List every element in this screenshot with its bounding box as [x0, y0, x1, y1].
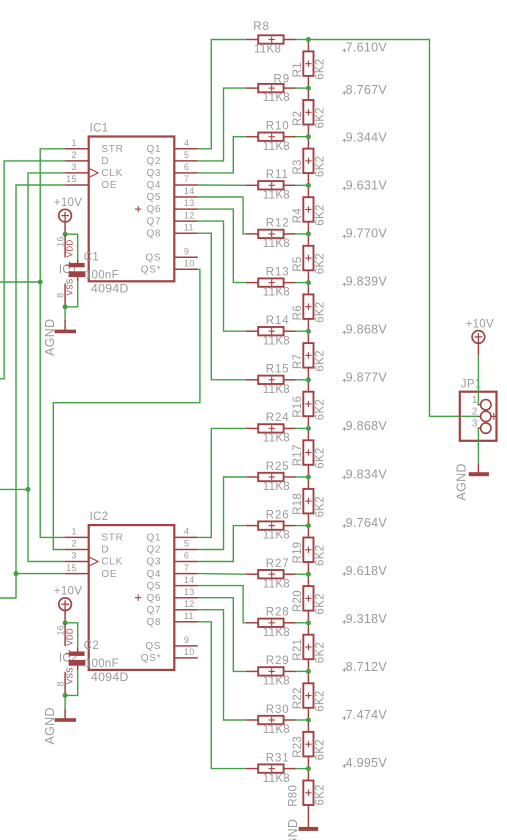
wire +10V pin IC2 — [64, 611, 66, 621]
wire row 8 resistor to node — [296, 379, 309, 381]
resistor R30 11K8 — [246, 704, 296, 736]
resistor R4 6K2 — [292, 185, 327, 234]
wire IC1 Q4 to row 4 — [198, 184, 246, 186]
svg-text:+10V: +10V — [466, 319, 494, 331]
svg-text:11K8: 11K8 — [263, 141, 290, 153]
svg-text:6K2: 6K2 — [315, 447, 327, 468]
svg-text:R4: R4 — [292, 208, 304, 224]
svg-text:QS: QS — [145, 252, 161, 263]
node voltage label 9.877V — [343, 370, 388, 384]
svg-text:6K2: 6K2 — [315, 496, 327, 517]
wire row 9 resistor to node — [296, 427, 309, 429]
svg-text:9.834V: 9.834V — [346, 467, 388, 481]
svg-text:100nF: 100nF — [85, 658, 119, 670]
junction CLK branch — [26, 487, 31, 492]
svg-text:11K8: 11K8 — [263, 287, 290, 299]
svg-text:9.344V: 9.344V — [346, 130, 388, 144]
wire IC2 Q3 to row 11 — [198, 526, 246, 562]
svg-text:6K2: 6K2 — [315, 399, 327, 420]
svg-text:14: 14 — [184, 186, 195, 196]
pin 8 VSS IC1 — [56, 279, 75, 307]
junction OE branch — [14, 571, 19, 576]
wire row 10 resistor to node — [296, 476, 309, 478]
wire row 2 resistor to node — [296, 87, 309, 89]
power +10V supply above IC2 — [54, 585, 82, 611]
junction node row 3 — [306, 134, 311, 139]
wire IC1 Q3 to row 3 — [198, 137, 246, 173]
resistor R2 6K2 — [292, 88, 327, 137]
svg-text:R31: R31 — [266, 752, 290, 764]
connector JP1 — [460, 378, 497, 440]
wire IC2 Q7 to row 15 — [198, 610, 246, 720]
wire VDD to C1 — [65, 234, 78, 259]
svg-text:6K2: 6K2 — [315, 204, 327, 225]
wire C2 to VSS — [65, 670, 78, 695]
node voltage label 9.834V — [343, 467, 388, 481]
svg-text:R25: R25 — [266, 461, 290, 473]
resistor R6 6K2 — [292, 283, 327, 332]
svg-text:2: 2 — [472, 407, 478, 418]
svg-text:R27: R27 — [266, 558, 290, 570]
svg-text:R7: R7 — [292, 354, 304, 369]
wire IC1 Q7 to row 7 — [198, 221, 246, 331]
svg-text:11K8: 11K8 — [254, 44, 281, 56]
resistor R10 11K8 — [246, 121, 296, 153]
svg-text:11K8: 11K8 — [263, 335, 290, 347]
svg-text:R10: R10 — [266, 121, 290, 133]
wire +10V pin JP1 — [477, 343, 479, 355]
resistor R5 6K2 — [292, 234, 327, 283]
svg-text:R17: R17 — [292, 444, 304, 466]
svg-text:15: 15 — [66, 174, 77, 184]
resistor R12 11K8 — [246, 218, 296, 250]
node voltage label 4.995V — [343, 756, 388, 770]
svg-text:R11: R11 — [266, 169, 289, 181]
svg-text:4094D: 4094D — [91, 670, 129, 684]
resistor R15 11K8 — [246, 364, 296, 396]
svg-text:16: 16 — [56, 625, 66, 636]
svg-text:4: 4 — [184, 527, 189, 537]
svg-text:3: 3 — [472, 418, 478, 429]
label IC2 power gate — [59, 652, 78, 664]
svg-text:+10V: +10V — [54, 585, 82, 597]
svg-text:9: 9 — [184, 635, 189, 645]
junction node row 7 — [306, 329, 311, 334]
wire net OE — [0, 185, 65, 598]
svg-text:STR: STR — [101, 533, 123, 544]
wire IC1 Q6 to row 6 — [198, 209, 246, 283]
svg-text:12: 12 — [184, 599, 195, 609]
svg-text:Q6: Q6 — [146, 204, 161, 215]
junction node row 15 — [306, 718, 311, 723]
svg-text:6K2: 6K2 — [315, 593, 327, 614]
junction node row 8 — [306, 377, 311, 382]
node voltage label 9.344V — [343, 130, 388, 144]
svg-text:R21: R21 — [292, 639, 304, 661]
svg-text:R5: R5 — [292, 256, 304, 271]
svg-text:9.618V: 9.618V — [346, 564, 388, 578]
pin 8 VSS IC2 — [56, 667, 75, 695]
svg-text:13: 13 — [184, 587, 195, 597]
svg-text:VDD: VDD — [66, 239, 75, 257]
svg-text:R22: R22 — [292, 687, 304, 709]
svg-text:4.995V: 4.995V — [346, 756, 388, 770]
wire row 15 resistor to node — [296, 719, 309, 721]
svg-text:Q7: Q7 — [146, 216, 161, 227]
svg-text:Q4: Q4 — [146, 180, 161, 191]
resistor R19 6K2 — [292, 526, 327, 575]
svg-text:R18: R18 — [292, 493, 304, 515]
svg-text:16: 16 — [56, 236, 66, 247]
svg-text:C1: C1 — [84, 251, 99, 263]
resistor R28 11K8 — [246, 607, 296, 639]
svg-text:11K8: 11K8 — [263, 676, 290, 688]
node voltage label 9.764V — [343, 516, 388, 530]
svg-text:R2: R2 — [292, 111, 304, 126]
resistor R18 6K2 — [292, 477, 327, 526]
junction node row 13 — [306, 620, 311, 625]
svg-text:R13: R13 — [266, 266, 290, 278]
svg-text:11K8: 11K8 — [263, 773, 290, 785]
svg-text:R30: R30 — [266, 704, 290, 716]
svg-text:Q1: Q1 — [146, 533, 161, 544]
svg-text:R8: R8 — [253, 21, 270, 33]
wire VDD to C2 — [65, 623, 78, 648]
capacitor C1 100nF — [66, 251, 119, 281]
junction VSS node IC1 — [63, 304, 68, 309]
junction node row 2 — [306, 86, 311, 91]
resistor R9 11K8 — [246, 74, 296, 105]
svg-text:AGND: AGND — [43, 707, 57, 744]
svg-text:8.767V: 8.767V — [346, 83, 388, 97]
wire IC1 QS* to IC2 D — [53, 269, 200, 549]
svg-text:R80: R80 — [288, 785, 300, 807]
svg-text:R26: R26 — [266, 509, 290, 521]
capacitor C2 100nF — [66, 640, 119, 670]
svg-text:6K2: 6K2 — [315, 642, 327, 663]
resistor R21 6K2 — [292, 623, 327, 672]
wire IC2 Q2 to row 10 — [198, 477, 246, 550]
wire net D — [0, 161, 65, 379]
node voltage label 9.618V — [343, 564, 388, 578]
svg-text:6K2: 6K2 — [315, 59, 327, 80]
svg-text:8.712V: 8.712V — [346, 660, 388, 674]
wire row 4 resistor to node — [296, 184, 309, 186]
svg-text:6K2: 6K2 — [315, 107, 327, 128]
node voltage label 7.474V — [343, 708, 388, 722]
svg-text:STR: STR — [101, 144, 123, 155]
svg-text:8: 8 — [56, 681, 66, 686]
svg-text:9: 9 — [184, 246, 189, 256]
pin 16 VDD IC1 — [56, 234, 75, 257]
resistor R24 11K8 — [246, 412, 296, 444]
svg-text:1: 1 — [71, 527, 76, 537]
svg-text:6K2: 6K2 — [315, 156, 327, 177]
node voltage label 8.767V — [343, 83, 388, 97]
svg-text:R29: R29 — [266, 655, 290, 667]
svg-text:+10V: +10V — [54, 197, 82, 209]
svg-text:IC1: IC1 — [90, 122, 109, 134]
svg-text:R9: R9 — [274, 74, 291, 86]
wire IC1 Q1 to row 1 — [198, 40, 246, 149]
wire ladder top to JP1 pin 2 — [308, 40, 478, 417]
resistor R11 11K8 — [246, 169, 296, 201]
resistor R16 6K2 — [292, 380, 327, 429]
svg-text:6K2: 6K2 — [315, 739, 327, 760]
resistor R23 6K2 — [292, 720, 327, 769]
svg-text:7: 7 — [184, 174, 189, 184]
svg-text:6K2: 6K2 — [315, 350, 327, 371]
junction node row 5 — [306, 231, 311, 236]
svg-text:4094D: 4094D — [91, 282, 129, 296]
resistor R7 6K2 — [292, 331, 327, 380]
svg-text:R1: R1 — [292, 62, 304, 77]
svg-text:10: 10 — [184, 647, 195, 657]
svg-text:6: 6 — [184, 162, 189, 172]
resistor R13 11K8 — [246, 266, 296, 298]
node voltage label 9.839V — [343, 274, 388, 288]
svg-text:11K8: 11K8 — [263, 92, 290, 104]
svg-text:R24: R24 — [266, 412, 290, 424]
resistor R25 11K8 — [246, 461, 296, 493]
svg-text:2: 2 — [71, 539, 76, 549]
wire C1 to VSS — [65, 282, 78, 307]
resistor R29 11K8 — [246, 655, 296, 687]
svg-text:11K8: 11K8 — [263, 578, 290, 590]
resistor R14 11K8 — [246, 315, 296, 347]
junction node row 16 — [306, 766, 311, 771]
svg-text:Q3: Q3 — [146, 557, 161, 568]
svg-text:7.474V: 7.474V — [346, 708, 388, 722]
wire row 11 resistor to node — [296, 525, 309, 527]
svg-text:AGND: AGND — [286, 819, 300, 840]
svg-text:Q8: Q8 — [146, 617, 161, 628]
power +10V supply above JP1 — [466, 319, 494, 344]
svg-text:100nF: 100nF — [85, 270, 119, 282]
svg-text:VDD: VDD — [66, 628, 75, 646]
svg-text:Q1: Q1 — [146, 144, 161, 155]
svg-text:11K8: 11K8 — [263, 384, 290, 396]
wire row 16 resistor to node — [296, 768, 309, 770]
svg-text:10: 10 — [184, 259, 195, 269]
svg-text:9.868V: 9.868V — [346, 322, 388, 336]
junction node row 11 — [306, 523, 311, 528]
wire IC2 Q5 to row 13 — [198, 586, 246, 623]
svg-text:D: D — [101, 156, 109, 167]
svg-text:7: 7 — [184, 563, 189, 573]
svg-text:Q2: Q2 — [146, 156, 161, 167]
svg-text:1: 1 — [71, 138, 76, 148]
junction node row 1 — [306, 37, 311, 42]
junction node row 9 — [306, 426, 311, 431]
wire row 3 resistor to node — [296, 136, 309, 138]
wire net CLK — [28, 173, 65, 562]
junction VDD node IC2 — [63, 620, 68, 625]
svg-text:3: 3 — [71, 162, 76, 172]
wire row 14 resistor to node — [296, 670, 309, 672]
node voltage label 9.318V — [343, 612, 388, 626]
svg-text:R3: R3 — [292, 159, 304, 174]
wire IC1 Q2 to row 2 — [198, 88, 246, 161]
junction VSS node IC2 — [63, 693, 68, 698]
wire IC1 Q8 to row 8 — [198, 233, 246, 380]
svg-text:R6: R6 — [292, 305, 304, 320]
svg-text:Q8: Q8 — [146, 228, 161, 239]
node voltage label 9.868V — [343, 419, 388, 433]
svg-text:R23: R23 — [292, 736, 304, 758]
svg-text:9.318V: 9.318V — [346, 612, 388, 626]
svg-text:6K2: 6K2 — [315, 784, 327, 805]
svg-text:11K8: 11K8 — [263, 238, 290, 250]
svg-text:11K8: 11K8 — [263, 481, 290, 493]
svg-text:1: 1 — [472, 395, 478, 406]
wire JP1 pin 3 to ground — [477, 428, 479, 464]
resistor R80 6K2 — [288, 769, 327, 828]
svg-text:6: 6 — [184, 551, 189, 561]
svg-text:13: 13 — [184, 198, 195, 208]
node voltage label 7.610V — [343, 40, 388, 54]
svg-text:9.764V: 9.764V — [346, 516, 388, 530]
ground AGND IC2 — [43, 707, 76, 744]
svg-text:11: 11 — [184, 611, 194, 621]
svg-text:6K2: 6K2 — [315, 545, 327, 566]
wire row 1 resistor to node — [296, 39, 309, 41]
svg-text:AGND: AGND — [43, 319, 57, 356]
svg-text:Q2: Q2 — [146, 545, 161, 556]
svg-text:R15: R15 — [266, 364, 290, 376]
svg-text:Q5: Q5 — [146, 581, 161, 592]
svg-text:AGND: AGND — [455, 463, 469, 500]
svg-text:5: 5 — [184, 150, 189, 160]
node voltage label 9.770V — [343, 226, 388, 240]
wire IC2 Q8 to row 16 — [198, 622, 246, 769]
wire IC2 Q4 to row 12 — [198, 573, 246, 576]
svg-text:QS: QS — [145, 641, 161, 652]
svg-text:Q4: Q4 — [146, 569, 161, 580]
label IC1 power gate — [59, 264, 78, 276]
svg-text:4: 4 — [184, 138, 189, 148]
svg-text:VSS: VSS — [66, 279, 75, 296]
ground AGND bottom of ladder — [286, 819, 318, 840]
svg-text:6K2: 6K2 — [315, 253, 327, 274]
svg-text:5: 5 — [184, 539, 189, 549]
resistor R1 6K2 — [292, 40, 327, 89]
resistor R3 6K2 — [292, 137, 327, 186]
wire IC2 Q1 to row 9 — [198, 428, 246, 537]
svg-text:QS*: QS* — [141, 265, 161, 276]
svg-text:11: 11 — [184, 222, 194, 232]
svg-text:11K8: 11K8 — [263, 189, 290, 201]
junction STR branch — [38, 280, 43, 285]
svg-text:R14: R14 — [266, 315, 290, 327]
svg-text:QS*: QS* — [141, 653, 161, 664]
junction node row 10 — [306, 475, 311, 480]
svg-text:14: 14 — [184, 575, 195, 585]
resistor R27 11K8 — [246, 558, 296, 590]
svg-text:Q7: Q7 — [146, 605, 161, 616]
svg-text:Q3: Q3 — [146, 168, 161, 179]
wire STR to left edge — [0, 281, 40, 283]
svg-text:CLK: CLK — [101, 168, 123, 179]
wire net STR — [40, 149, 64, 538]
ground AGND IC1 — [43, 319, 76, 356]
wire row 5 resistor to node — [296, 233, 309, 235]
svg-text:11K8: 11K8 — [263, 433, 290, 445]
svg-text:R28: R28 — [266, 607, 290, 619]
svg-text:7.610V: 7.610V — [346, 40, 388, 54]
ground AGND JP1 — [455, 463, 489, 500]
svg-text:R20: R20 — [292, 590, 304, 612]
svg-text:3: 3 — [71, 551, 76, 561]
svg-text:Q6: Q6 — [146, 593, 161, 604]
svg-text:6K2: 6K2 — [315, 302, 327, 323]
svg-text:9.868V: 9.868V — [346, 419, 388, 433]
svg-text:Q5: Q5 — [146, 192, 161, 203]
svg-text:R19: R19 — [292, 542, 304, 564]
svg-text:9.877V: 9.877V — [346, 370, 388, 384]
wire row 12 resistor to node — [296, 573, 309, 575]
resistor R22 6K2 — [292, 671, 327, 720]
pin 16 VDD IC2 — [56, 623, 75, 646]
svg-text:IC2: IC2 — [90, 511, 109, 523]
op-amp IC1 4094D shift register — [65, 122, 198, 295]
svg-text:2: 2 — [71, 150, 76, 160]
resistor R26 11K8 — [246, 509, 296, 541]
svg-text:11K8: 11K8 — [263, 627, 290, 639]
wire IC2 Q6 to row 14 — [198, 598, 246, 672]
wire row 13 resistor to node — [296, 622, 309, 624]
node voltage label 9.868V — [343, 322, 388, 336]
junction node row 12 — [306, 572, 311, 577]
svg-text:11K8: 11K8 — [263, 530, 290, 542]
resistor R20 6K2 — [292, 574, 327, 623]
wire OE to IC2 pin 15 — [16, 573, 65, 575]
svg-text:8: 8 — [56, 293, 66, 298]
svg-text:15: 15 — [66, 563, 77, 573]
power +10V supply above IC1 — [54, 197, 82, 223]
resistor R8 11K8 — [246, 21, 296, 56]
svg-text:12: 12 — [184, 210, 195, 220]
wire row 7 resistor to node — [296, 330, 309, 332]
svg-text:D: D — [101, 545, 109, 556]
resistor R31 11K8 — [246, 752, 296, 784]
svg-text:9.770V: 9.770V — [346, 226, 388, 240]
svg-text:R12: R12 — [266, 218, 290, 230]
svg-text:11K8: 11K8 — [263, 724, 290, 736]
wire VSS to ground IC2 — [64, 695, 66, 708]
wire IC1 Q5 to row 5 — [198, 197, 246, 234]
svg-text:C2: C2 — [84, 640, 99, 652]
wire CLK to left edge — [0, 488, 28, 490]
svg-text:CLK: CLK — [101, 557, 123, 568]
junction node row 6 — [306, 280, 311, 285]
node voltage label 8.712V — [343, 660, 388, 674]
wire VSS to ground IC1 — [64, 307, 66, 320]
resistor R17 6K2 — [292, 428, 327, 477]
wire +10V to JP1 pin 1 — [477, 356, 479, 405]
svg-text:R16: R16 — [292, 396, 304, 418]
junction VDD node IC1 — [63, 232, 68, 237]
junction node row 4 — [306, 183, 311, 188]
svg-text:OE: OE — [101, 569, 117, 580]
wire row 6 resistor to node — [296, 282, 309, 284]
svg-text:OE: OE — [101, 180, 117, 191]
node voltage label 9.631V — [343, 178, 388, 192]
svg-text:9.839V: 9.839V — [346, 274, 388, 288]
op-amp IC2 4094D shift register — [65, 511, 198, 684]
wire +10V pin IC1 — [64, 222, 66, 232]
svg-text:9.631V: 9.631V — [346, 178, 388, 192]
